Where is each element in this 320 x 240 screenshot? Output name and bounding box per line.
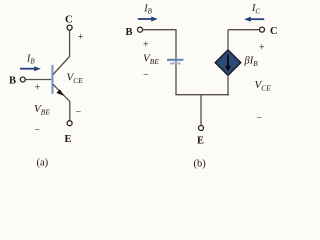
transistor Q1 emitter stroke bbox=[53, 84, 70, 101]
svg-text:+: + bbox=[78, 32, 84, 43]
wire source top (b) bbox=[227, 30, 229, 50]
dependent source arrow bbox=[225, 55, 231, 72]
svg-text:VBE: VBE bbox=[143, 52, 159, 66]
svg-text:E: E bbox=[197, 135, 204, 146]
current arrow I_B (b) bbox=[138, 17, 158, 22]
transistor Q1 collector stroke bbox=[53, 57, 70, 75]
current arrow I_C bbox=[244, 17, 264, 22]
terminal C (b) bbox=[260, 27, 265, 32]
svg-text:VCE: VCE bbox=[255, 79, 272, 93]
svg-text:+: + bbox=[35, 83, 41, 94]
svg-text:E: E bbox=[65, 134, 72, 145]
current arrow I_B (a) bbox=[20, 66, 41, 71]
terminal B (b) bbox=[138, 27, 143, 32]
dependent current source βI_B diamond bbox=[215, 50, 241, 76]
capacitor plate bottom bbox=[170, 62, 181, 64]
transistor Q1 base bar bbox=[51, 65, 53, 94]
terminal E (b) bbox=[199, 126, 204, 131]
svg-text:B: B bbox=[126, 27, 133, 38]
wire collector vertical (a) bbox=[69, 30, 71, 57]
terminal B (a) bbox=[20, 77, 25, 82]
wire emitter stub (b) bbox=[200, 95, 202, 126]
svg-text:−: − bbox=[257, 113, 263, 124]
svg-text:βIB: βIB bbox=[244, 56, 259, 68]
svg-text:IB: IB bbox=[143, 4, 152, 16]
svg-text:−: − bbox=[143, 69, 149, 80]
svg-text:VCE: VCE bbox=[67, 72, 84, 86]
capacitor plate top bbox=[167, 59, 183, 61]
svg-text:−: − bbox=[35, 125, 41, 136]
svg-text:(b): (b) bbox=[194, 159, 207, 170]
svg-text:B: B bbox=[9, 76, 16, 87]
wire base top (b) bbox=[143, 30, 176, 95]
wire base (a) bbox=[25, 79, 51, 81]
svg-text:+: + bbox=[259, 43, 265, 54]
terminal E (a) bbox=[67, 121, 72, 126]
wire source bottom (b) bbox=[227, 75, 229, 95]
svg-text:−: − bbox=[76, 107, 82, 118]
svg-text:VBE: VBE bbox=[34, 103, 50, 117]
transistor Q1 emitter arrowhead bbox=[56, 89, 64, 96]
wire collector top (b) bbox=[228, 29, 259, 31]
terminal C (a) bbox=[67, 25, 72, 30]
wire emitter vertical (a) bbox=[69, 101, 71, 120]
svg-text:C: C bbox=[270, 26, 278, 37]
svg-text:(a): (a) bbox=[37, 158, 49, 169]
wire bottom rail (b) bbox=[175, 94, 229, 96]
svg-text:C: C bbox=[65, 14, 73, 25]
svg-text:IB: IB bbox=[26, 54, 35, 66]
svg-text:IC: IC bbox=[251, 3, 260, 15]
svg-text:+: + bbox=[143, 40, 149, 51]
